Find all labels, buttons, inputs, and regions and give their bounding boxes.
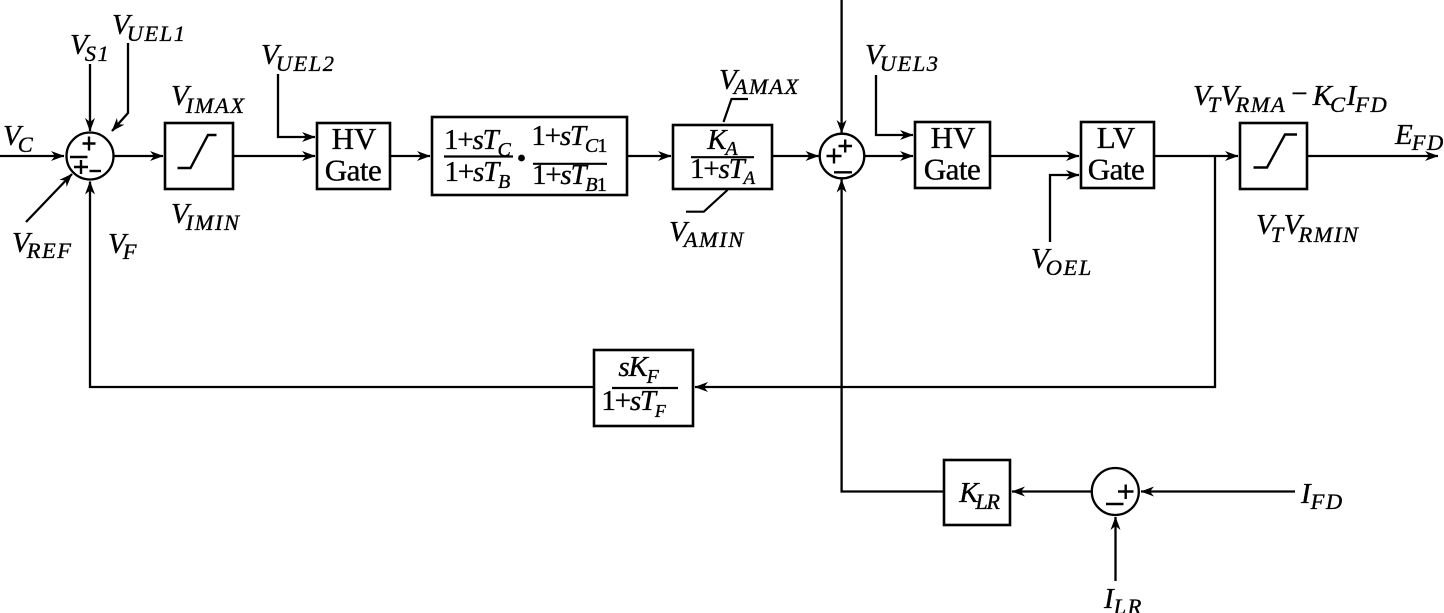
svg-text:LV: LV <box>1097 120 1136 155</box>
svg-text:VC: VC <box>3 120 34 157</box>
svg-text:VUEL1: VUEL1 <box>112 9 186 46</box>
svg-text:VUEL3: VUEL3 <box>865 39 939 76</box>
svg-text:IFD: IFD <box>1300 478 1344 514</box>
svg-text:VTVRMA−KCIFD: VTVRMA−KCIFD <box>1193 78 1388 117</box>
svg-text:sKF: sKF <box>618 351 659 388</box>
svg-text:HV: HV <box>332 121 377 156</box>
svg-text:VF: VF <box>108 228 138 264</box>
svg-text:1+sTF: 1+sTF <box>601 385 666 421</box>
svg-text:VUEL2: VUEL2 <box>261 39 335 76</box>
svg-text:HV: HV <box>931 120 976 155</box>
svg-text:VIMIN: VIMIN <box>171 198 241 235</box>
svg-text:VAMIN: VAMIN <box>669 216 745 252</box>
svg-text:VAMAX: VAMAX <box>719 64 800 99</box>
svg-text:Gate: Gate <box>1088 152 1145 187</box>
svg-text:EFD: EFD <box>1394 119 1444 155</box>
svg-text:1+sTC1: 1+sTC1 <box>531 120 606 157</box>
svg-text:Gate: Gate <box>924 152 981 187</box>
svg-text:VIMAX: VIMAX <box>171 80 245 118</box>
svg-text:VS1: VS1 <box>70 29 110 66</box>
svg-text:1+sTA: 1+sTA <box>690 153 755 189</box>
svg-text:ILR: ILR <box>1103 583 1143 613</box>
svg-text:VTVRMIN: VTVRMIN <box>1256 209 1360 247</box>
svg-text:VREF: VREF <box>12 227 72 263</box>
svg-text:Gate: Gate <box>325 153 382 188</box>
svg-text:KLR: KLR <box>958 477 1000 514</box>
svg-text:VOEL: VOEL <box>1031 243 1093 280</box>
svg-text:1+sTB: 1+sTB <box>445 156 510 193</box>
